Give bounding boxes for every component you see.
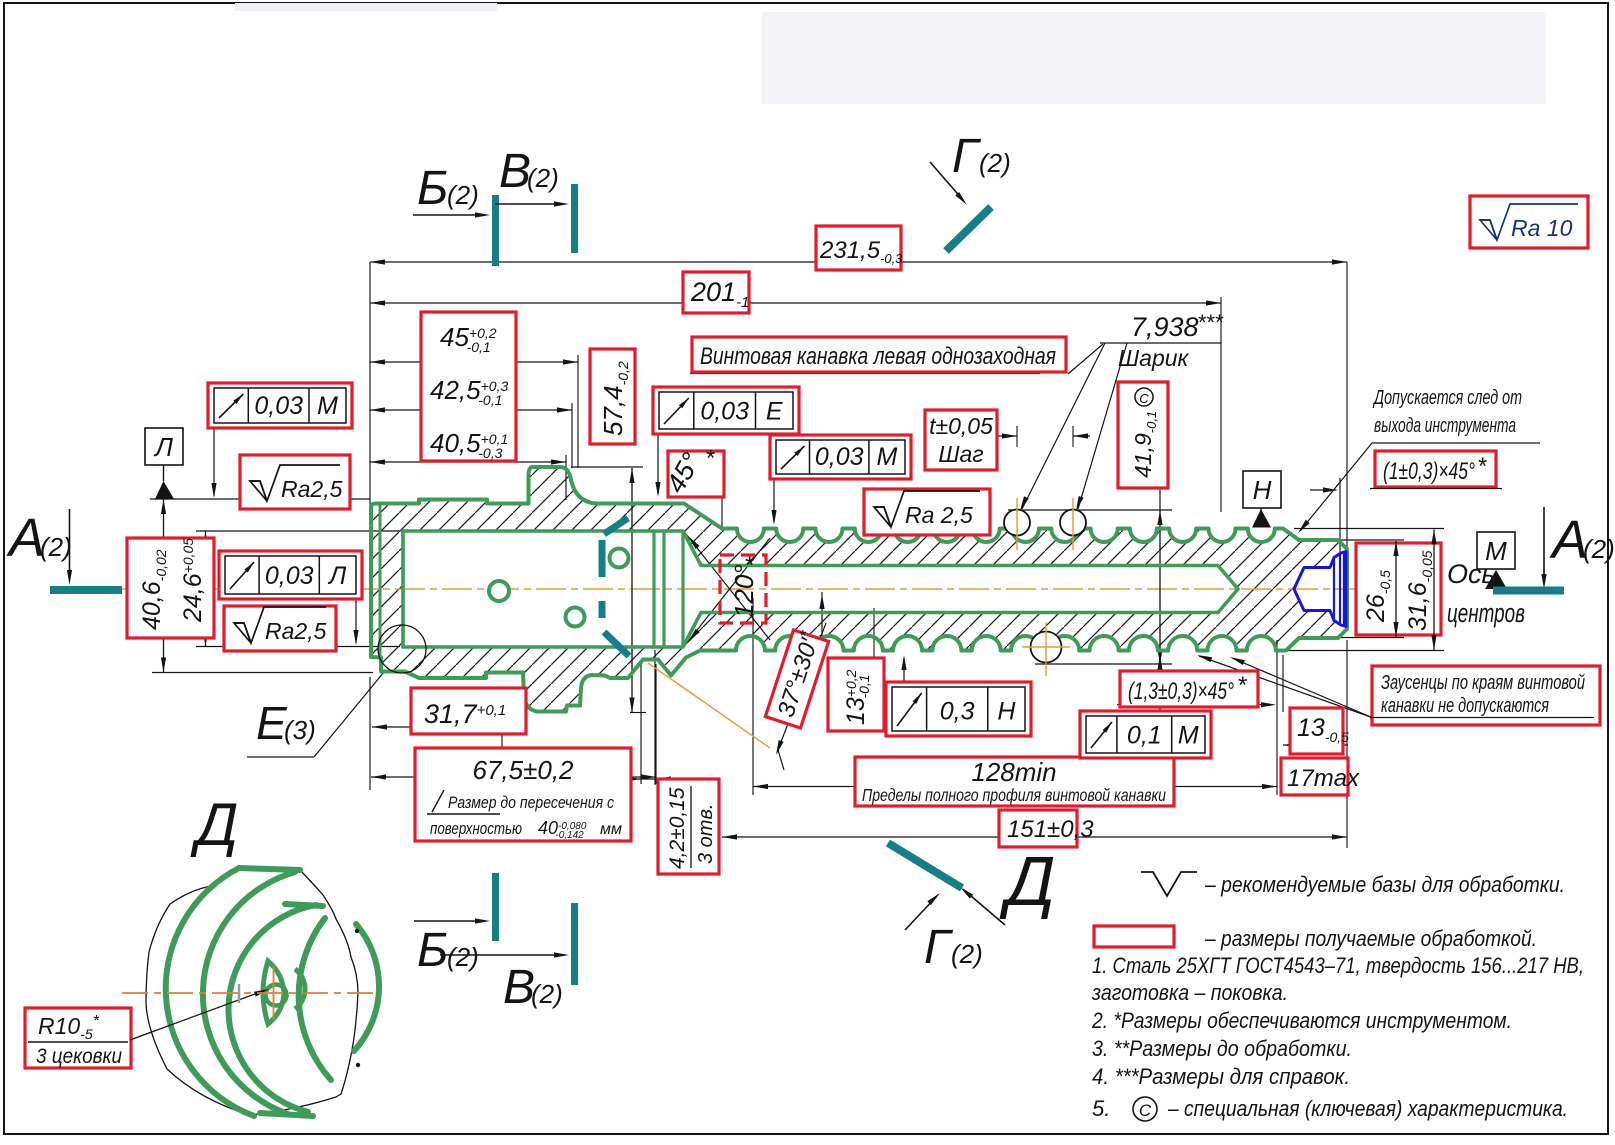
dim 201 xyxy=(683,272,749,313)
legend: datum symbol xyxy=(1141,872,1197,896)
end view black silhouette xyxy=(146,867,358,1115)
main dimension lines xyxy=(370,261,1347,263)
svg-text:– специальная (ключевая) харак: – специальная (ключевая) характеристика. xyxy=(1167,1096,1568,1121)
svg-text:0,03: 0,03 xyxy=(265,562,314,590)
dim 45 deg (rotated) xyxy=(668,451,724,497)
svg-text:Н: Н xyxy=(997,698,1016,726)
svg-text:Б: Б xyxy=(417,162,448,215)
section trace bracket (teal) xyxy=(604,518,628,534)
svg-text:40,5+0,1-0,3: 40,5+0,1-0,3 xyxy=(430,428,508,461)
balls in groove xyxy=(1004,510,1030,536)
svg-text:С: С xyxy=(1139,391,1149,406)
svg-text:1. Сталь 25ХГТ ГОСТ4543–71, тв: 1. Сталь 25ХГТ ГОСТ4543–71, твердость 15… xyxy=(1092,953,1584,978)
svg-text:120°: 120° xyxy=(729,564,759,618)
dim 151 xyxy=(999,810,1077,847)
dim 41,9 (rotated) xyxy=(1118,382,1168,488)
dim 31,7 xyxy=(411,688,526,734)
svg-text:Ra2,5: Ra2,5 xyxy=(281,476,343,502)
dim 231,5 xyxy=(816,226,901,270)
svg-text:0,03: 0,03 xyxy=(700,397,749,425)
roughness Ra2,5 bottom-left xyxy=(224,606,336,651)
svg-text:(1,3±0,3)×45°: (1,3±0,3)×45° xyxy=(1128,678,1234,705)
svg-text:канавки не допускаются: канавки не допускаются xyxy=(1381,695,1549,717)
datum flag M right xyxy=(1477,532,1515,569)
dim (1,3±0,3)x45 xyxy=(1120,671,1258,707)
svg-text:0,03: 0,03 xyxy=(254,392,303,420)
dim 17max xyxy=(1281,758,1348,795)
dim 120 deg (dashed box) xyxy=(720,555,766,623)
dim 128min full profile xyxy=(855,757,1174,806)
shaft outer profile (green) xyxy=(371,467,1347,712)
svg-text:67,5±0,2: 67,5±0,2 xyxy=(472,755,574,785)
roughness Ra2,5 top-left xyxy=(240,455,350,509)
svg-text:Шарик: Шарик xyxy=(1118,345,1190,371)
dim (1±0,3)x45 xyxy=(1375,451,1496,487)
svg-text:*: * xyxy=(1238,672,1247,699)
svg-text:Ra 2,5: Ra 2,5 xyxy=(905,502,973,528)
svg-text:45+0,2-0,1: 45+0,2-0,1 xyxy=(440,322,497,355)
tol frame 0,1 M xyxy=(1080,711,1211,758)
svg-text:(2): (2) xyxy=(447,942,479,972)
svg-text:Ra2,5: Ra2,5 xyxy=(265,618,327,644)
svg-text:***: *** xyxy=(1198,310,1224,335)
svg-text:4,2±0,15: 4,2±0,15 xyxy=(666,787,689,869)
svg-text:(2): (2) xyxy=(40,532,72,562)
dim 37±30 (rotated) xyxy=(765,626,830,728)
tol frame 0,03 E xyxy=(653,387,799,434)
svg-text:мм: мм xyxy=(600,821,622,838)
svg-text:поверхностью: поверхностью xyxy=(430,819,522,838)
svg-text:Г: Г xyxy=(924,921,954,974)
extension lines xyxy=(369,262,371,505)
legend: red box sample xyxy=(1094,926,1174,947)
dim 13+0,2 (rotated) xyxy=(828,658,884,731)
svg-text:заготовка – поковка.: заготовка – поковка. xyxy=(1091,980,1288,1005)
svg-text:– размеры получаемые обработко: – размеры получаемые обработкой. xyxy=(1204,926,1537,951)
svg-text:Л: Л xyxy=(327,562,347,590)
note: burrs xyxy=(1372,666,1600,725)
tol frame 0,03 L xyxy=(219,551,362,599)
grey strip top-left xyxy=(235,3,497,11)
left face inner line xyxy=(379,505,382,656)
dims 40,6 / 24,6 (rotated) xyxy=(127,538,214,638)
svg-text:выхода инструмента: выхода инструмента xyxy=(1374,415,1516,437)
svg-text:Допускается след от: Допускается след от xyxy=(1373,387,1522,409)
svg-text:3 отв.: 3 отв. xyxy=(695,804,717,864)
svg-text:Винтовая канавка левая однозах: Винтовая канавка левая однозаходная xyxy=(700,343,1056,370)
svg-text:Д: Д xyxy=(190,791,238,858)
svg-text:3. **Размеры до обработки.: 3. **Размеры до обработки. xyxy=(1092,1036,1352,1061)
svg-text:42,5+0,3-0,1: 42,5+0,3-0,1 xyxy=(430,375,508,408)
dim 4,2 3 holes (rotated) xyxy=(658,779,719,874)
svg-text:Д: Д xyxy=(999,842,1055,920)
svg-text:(2): (2) xyxy=(527,163,559,193)
svg-text:2. *Размеры обеспечиваются инс: 2. *Размеры обеспечиваются инструментом. xyxy=(1091,1008,1512,1033)
head cavity and axial hole outline (green) xyxy=(403,531,1238,647)
svg-text:Размер до пересечения с: Размер до пересечения с xyxy=(448,793,614,812)
svg-text:Шаг: Шаг xyxy=(938,441,983,467)
svg-text:*: * xyxy=(745,552,754,579)
svg-text:5.: 5. xyxy=(1092,1096,1110,1121)
svg-text:Б: Б xyxy=(417,924,448,977)
leader lines with arrows xyxy=(213,428,215,496)
cavity step lines xyxy=(652,531,655,647)
svg-text:(2): (2) xyxy=(1583,534,1615,564)
svg-text:40-0,080-0,142: 40-0,080-0,142 xyxy=(538,818,587,841)
svg-text:центров: центров xyxy=(1447,598,1525,628)
tol frame 0,3 N xyxy=(886,682,1031,736)
roughness Ra 10 top-right (navy) xyxy=(1470,196,1588,248)
shaft material section with hatching xyxy=(371,467,1347,712)
svg-text:4. ***Размеры для справок.: 4. ***Размеры для справок. xyxy=(1092,1064,1350,1089)
svg-text:t±0,05: t±0,05 xyxy=(929,413,993,439)
dim t±0,05 step xyxy=(925,410,997,470)
svg-text:Г: Г xyxy=(952,130,982,183)
svg-text:0,3: 0,3 xyxy=(940,698,975,726)
svg-text:*: * xyxy=(706,445,715,472)
svg-text:Ось: Ось xyxy=(1447,559,1496,589)
svg-text:(2): (2) xyxy=(951,939,983,969)
counterbore holes seen in section xyxy=(489,581,509,601)
svg-text:Пределы полного профиля винтов: Пределы полного профиля винтовой канавки xyxy=(862,785,1166,805)
detail E circle xyxy=(378,625,426,673)
svg-text:Н: Н xyxy=(1253,475,1272,505)
tol frame 0,03 M (left) xyxy=(208,383,352,428)
svg-text:(2): (2) xyxy=(447,180,479,210)
svg-text:(1±0,3)×45°: (1±0,3)×45° xyxy=(1383,458,1475,485)
dims 26 / 31,6 (rotated) xyxy=(1356,543,1441,635)
dims 45 / 42,5 / 40,5 stack xyxy=(421,312,516,461)
svg-text:М: М xyxy=(317,392,338,420)
svg-text:(2): (2) xyxy=(531,979,563,1009)
svg-text:Л: Л xyxy=(153,432,173,462)
svg-text:Ra 10: Ra 10 xyxy=(1511,215,1573,241)
centerline axis xyxy=(113,588,1360,590)
datum flag L xyxy=(145,428,183,465)
dim 57,4 (rotated) xyxy=(590,349,635,444)
dim R10 3 counterbores xyxy=(25,1008,131,1068)
end view counterbore lens xyxy=(263,961,284,1024)
svg-text:3 цековки: 3 цековки xyxy=(36,1045,122,1068)
svg-text:128min: 128min xyxy=(971,757,1056,787)
svg-text:Е: Е xyxy=(766,397,783,425)
R10 leader redraw over view xyxy=(130,991,263,1040)
svg-text:*: * xyxy=(1478,453,1487,480)
end view centerlines xyxy=(122,992,375,994)
dim 13-0,5 xyxy=(1290,708,1343,754)
datum flag N xyxy=(1243,471,1281,508)
centre drill hole (blue) xyxy=(1294,552,1346,627)
dim 67,5 + note xyxy=(415,748,631,841)
svg-text:Заусенцы по краям винтовой: Заусенцы по краям винтовой xyxy=(1381,672,1585,694)
svg-text:(3): (3) xyxy=(284,715,316,745)
svg-text:151±0,3: 151±0,3 xyxy=(1007,816,1094,843)
svg-text:17max: 17max xyxy=(1287,765,1360,792)
note: screw groove text xyxy=(692,337,1066,372)
svg-text:13+0,2-0,1: 13+0,2-0,1 xyxy=(842,669,872,725)
grey stamp area (whited-out title block) xyxy=(762,12,1546,104)
svg-text:М: М xyxy=(877,443,898,471)
svg-text:7,938: 7,938 xyxy=(1131,312,1199,342)
svg-text:0,03: 0,03 xyxy=(815,443,864,471)
svg-text:С: С xyxy=(1139,1101,1152,1120)
svg-text:0,1: 0,1 xyxy=(1127,721,1162,749)
end view green arcs xyxy=(166,868,254,1116)
tol frame 0,03 M (mid) xyxy=(770,435,911,479)
roughness Ra 2,5 mid xyxy=(864,489,990,535)
svg-text:М: М xyxy=(1178,721,1199,749)
svg-text:– рекомендуемые базы для обраб: – рекомендуемые базы для обработки. xyxy=(1204,872,1565,897)
svg-text:(2): (2) xyxy=(979,148,1011,178)
